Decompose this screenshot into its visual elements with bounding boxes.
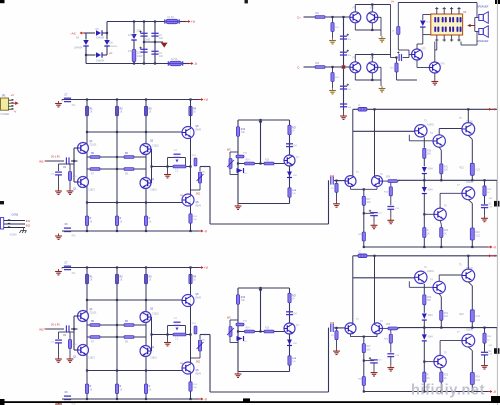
electrolytic capacitor C18 — [340, 52, 347, 55]
junction — [373, 108, 375, 110]
svg-text:10K: 10K — [241, 132, 246, 134]
svg-text:R23: R23 — [444, 375, 449, 377]
wire +V rail channel 1 — [62, 99, 199, 101]
junction — [86, 266, 88, 268]
wire driver bottom 1 — [238, 203, 290, 205]
junction — [86, 98, 88, 100]
wire — [336, 328, 338, 331]
wire T3 collector column stage 2 — [423, 284, 425, 295]
electrolytic capacitor C11 feedback channel 1 — [174, 154, 181, 157]
resistor R30b stage 2 — [423, 372, 426, 382]
wire — [435, 49, 437, 51]
wire diode link bottom — [423, 34, 431, 36]
resistor R23 stage 2 — [440, 372, 443, 382]
wire output rail stage 1 — [398, 179, 497, 181]
transistor Q5 VAS top channel 2 — [182, 295, 194, 307]
wire — [229, 320, 231, 343]
junction — [189, 230, 191, 232]
resistor R28 stage 2 — [362, 377, 365, 386]
junction — [423, 246, 425, 248]
wire — [199, 351, 201, 358]
junction — [259, 330, 261, 332]
svg-text:1K: 1K — [149, 280, 152, 282]
trimmer arrow driver 1 — [227, 160, 234, 167]
right edge line — [496, 0, 498, 405]
capacitor C13 input stage 1 — [331, 177, 333, 185]
svg-text:R13: R13 — [241, 297, 246, 299]
wire diff2 base column channel 1 — [151, 149, 153, 183]
svg-text:0.22: 0.22 — [475, 235, 480, 237]
transistor Q7 driver 1 — [284, 155, 295, 166]
junction — [145, 266, 147, 268]
wire — [417, 43, 423, 45]
ground R32 — [329, 38, 336, 44]
svg-text:1K: 1K — [120, 280, 123, 282]
trimmer W2 driver 2 — [229, 327, 232, 337]
resistor R12 channel 2 — [189, 382, 192, 392]
wire — [336, 181, 338, 184]
wire — [371, 55, 373, 62]
junction — [85, 54, 87, 56]
wire — [434, 73, 436, 79]
wire tail column stage 2 — [363, 337, 365, 344]
wire — [180, 21, 187, 23]
resistor R25 feedback stage 1 — [388, 180, 398, 183]
resistor R35 — [395, 63, 398, 72]
wire — [440, 368, 441, 372]
transistor T5 output NPN stage 2 — [462, 269, 475, 282]
wire — [417, 67, 429, 69]
wire speaker 1 — [475, 17, 479, 19]
ground at C7 channel 2 — [55, 269, 62, 275]
wire — [325, 16, 350, 18]
wire VT1 emitter — [354, 23, 356, 30]
crop mark bottom-center — [243, 398, 250, 403]
wire input jack line — [4, 227, 25, 229]
transistor VT4 — [367, 62, 378, 73]
crop mark top-center — [245, 0, 248, 3]
wire — [438, 129, 440, 135]
junction — [189, 98, 191, 100]
diode D10 driver 2 — [287, 340, 292, 346]
red junction — [342, 65, 346, 69]
wire — [439, 147, 441, 150]
resistor R14 driver 1 — [245, 162, 255, 165]
resistor R9 47K channel 1 — [68, 172, 71, 181]
junction — [440, 327, 442, 329]
wire input jack line — [4, 220, 25, 222]
resistor R28 stage 1 — [362, 232, 365, 241]
svg-text:4148: 4148 — [428, 169, 434, 171]
svg-text:V+: V+ — [391, 0, 395, 4]
svg-text:JP1: JP1 — [2, 94, 7, 97]
capacitor C14 stage 2 — [387, 354, 394, 357]
wire — [439, 193, 441, 208]
transistor T2 input stage 1 — [372, 176, 383, 187]
svg-text:R23: R23 — [444, 230, 449, 232]
feedback cap arrow channel 1 — [176, 160, 179, 163]
wire base column channel 2 — [73, 316, 75, 350]
electrolytic capacitor C2 4700uF — [140, 49, 147, 52]
electrolytic capacitor C8 47uF channel 2 — [64, 396, 71, 399]
resistor R11 1K — [85, 106, 88, 116]
resistor R26 stage 2 — [389, 334, 392, 343]
wire — [355, 54, 390, 56]
wire — [85, 47, 87, 64]
wire route across 1 — [210, 223, 329, 225]
junction — [143, 41, 145, 43]
wire input channel 2 — [47, 328, 65, 330]
resistor R7 100 channel 2 — [90, 336, 100, 339]
wire — [376, 187, 378, 189]
svg-text:A1943: A1943 — [427, 123, 434, 126]
svg-text:C5200: C5200 — [466, 329, 473, 331]
transistor T5 output NPN stage 1 — [462, 123, 475, 136]
wire lower collector row channel 1 — [87, 202, 182, 204]
wire diode link top — [423, 14, 431, 16]
svg-text:C1815: C1815 — [152, 145, 159, 147]
fuse F2 5A — [168, 61, 182, 65]
wire — [390, 357, 392, 366]
svg-text:R24: R24 — [475, 377, 480, 379]
svg-text:B649: B649 — [196, 129, 202, 131]
diode D13 flyback — [420, 21, 426, 28]
wire driver mid row 2 — [238, 331, 290, 333]
wire column A channel 2 — [86, 268, 88, 400]
wire — [71, 328, 78, 330]
wire output rail stage 2 — [398, 327, 497, 329]
wire T3 collector column stage 1 — [423, 137, 425, 148]
wire — [476, 32, 478, 46]
wire — [409, 54, 412, 56]
ground at C8 channel 1 — [55, 234, 62, 240]
ground feedback stage 2 — [387, 365, 394, 371]
svg-text:4148: 4148 — [428, 315, 434, 317]
resistor R29 10 stage 1 — [483, 186, 486, 196]
junction — [440, 179, 442, 181]
wire T2 collector column stage 1 — [374, 109, 376, 176]
wire VT1 collector — [354, 5, 356, 12]
wire cap column 1 — [143, 22, 145, 64]
svg-text:1/2W: 1/2W — [137, 55, 143, 58]
wire feedback shunt stage 2 — [390, 330, 392, 334]
resistor R8 100 channel 1 — [124, 168, 134, 171]
wire — [422, 35, 424, 44]
transistor T1 input stage 1 — [345, 176, 356, 187]
resistor R13 driver 2 — [236, 295, 239, 305]
power +V output stage 1 — [487, 108, 497, 112]
relay contacts — [434, 17, 461, 32]
junction — [86, 230, 88, 232]
net label IN2 arrow — [39, 328, 47, 332]
svg-text:~AC: ~AC — [70, 32, 77, 36]
svg-text:F1 5A: F1 5A — [168, 16, 175, 19]
wire column D channel 2 — [190, 268, 192, 400]
wire AC input — [84, 32, 95, 34]
resistor R21 stage 2 — [440, 310, 443, 320]
wire route up 1 — [328, 180, 330, 224]
junction — [237, 162, 239, 164]
resistor tail channel 2 — [144, 384, 147, 394]
wire — [422, 15, 424, 21]
wire tail cap branch stage 2 — [364, 360, 374, 362]
resistor R16 driver 2 — [236, 323, 244, 326]
wire — [69, 332, 71, 340]
junction — [166, 165, 168, 167]
fuse F1 5A — [165, 19, 179, 23]
wire — [167, 326, 169, 335]
junction — [154, 20, 156, 22]
wire lower collector row channel 2 — [87, 370, 182, 372]
transistor T4 stage 2 — [433, 281, 445, 293]
electrolytic capacitor C15 stage 2 — [370, 360, 378, 363]
diode D9 driver 1 — [237, 168, 244, 173]
wire — [471, 175, 473, 180]
resistor R21 1K — [115, 106, 118, 116]
wire — [439, 341, 441, 356]
svg-text:R13: R13 — [241, 129, 246, 131]
resistor R17 driver 2 — [288, 293, 291, 303]
svg-text:VT5: VT5 — [422, 49, 427, 51]
trimmer W1 channel 1 — [198, 172, 201, 183]
svg-text:1K: 1K — [427, 233, 430, 235]
wire — [133, 62, 135, 64]
junction — [371, 29, 373, 31]
wire emitter row 1 channel 1 — [87, 156, 146, 158]
wire — [398, 327, 401, 330]
transistor Q3 channel 1 — [140, 144, 151, 155]
wire T3 emitter stage 1 — [408, 135, 410, 141]
svg-text:502: 502 — [196, 361, 201, 364]
svg-text:F2 5A: F2 5A — [171, 58, 178, 61]
svg-text:R19: R19 — [330, 323, 335, 325]
power arrow at JP1 — [13, 101, 19, 105]
diode D7 1N4004 — [96, 52, 102, 58]
output terminal stage 2 — [494, 348, 500, 354]
junction — [116, 230, 118, 232]
relay K1 body — [431, 14, 463, 35]
resistor R4 1K channel 2 — [189, 274, 192, 284]
wire T1 collector column stage 2 — [352, 256, 354, 324]
wire — [350, 187, 352, 189]
junction — [483, 327, 485, 329]
svg-text:1K: 1K — [149, 389, 152, 391]
wire bridge bottom — [86, 54, 96, 56]
wire — [58, 164, 60, 171]
wire — [106, 47, 108, 56]
trimmer arrow channel 2 — [197, 342, 204, 349]
wire T5 collector stage 2 — [467, 256, 469, 269]
svg-text:1N4004: 1N4004 — [96, 37, 105, 40]
resistor R6 100 channel 1 — [124, 156, 134, 159]
wire — [355, 79, 381, 81]
svg-text:1K: 1K — [427, 378, 430, 380]
svg-text:+C: +C — [109, 51, 113, 55]
electrolytic capacitor C17 — [340, 36, 347, 39]
wire — [484, 196, 486, 205]
svg-text:R17: R17 — [292, 127, 297, 129]
wire — [373, 363, 375, 370]
wire — [61, 268, 63, 269]
svg-text:0.22: 0.22 — [475, 316, 480, 318]
svg-text:C1815: C1815 — [88, 190, 95, 192]
resistor R27 tail stage 2 — [362, 344, 365, 353]
wire output base top stage 2 — [439, 274, 462, 276]
junction — [335, 327, 337, 329]
wire — [343, 110, 345, 114]
resistor R32 1K — [144, 274, 147, 284]
diode D11 1N4148 stage 2 — [422, 314, 427, 321]
arrow marker driver 2 — [259, 289, 263, 292]
wire T2 collector column stage 2 — [374, 256, 376, 324]
resistor R36 — [397, 27, 400, 35]
electrolytic capacitor C10 channel 2 — [55, 340, 62, 343]
svg-text:VT6: VT6 — [441, 64, 446, 66]
svg-text:A1943: A1943 — [427, 270, 434, 273]
resistor R33 sense — [315, 66, 325, 69]
svg-text:+V: +V — [492, 108, 497, 112]
svg-text:1K: 1K — [444, 233, 447, 235]
power -V output stage 1 — [488, 245, 497, 249]
transistor T3 PNP stage 2 — [415, 271, 427, 283]
junction — [363, 360, 365, 362]
transistor Q2 channel 1 — [78, 177, 89, 188]
junction — [143, 62, 145, 64]
capacitor C13 input stage 2 — [331, 324, 333, 332]
wire — [484, 343, 486, 352]
svg-text:47K: 47K — [73, 344, 77, 346]
junction — [154, 41, 156, 43]
wire — [185, 326, 187, 335]
svg-text:R14: R14 — [246, 160, 251, 162]
junction — [166, 333, 168, 335]
ground input cap channel 2 — [55, 357, 62, 363]
wire — [183, 63, 189, 65]
junction — [335, 180, 337, 182]
wire driver top 2 — [238, 287, 290, 289]
wire — [167, 158, 169, 167]
inductor L2 — [358, 254, 367, 258]
trimmer W1 channel 2 — [198, 340, 201, 351]
wire — [471, 322, 473, 328]
ground input stage 1 — [333, 201, 340, 207]
wire input jack line — [4, 223, 25, 225]
junction — [467, 255, 469, 257]
resistor R14 driver 2 — [245, 330, 255, 333]
capacitor C16 stage 1 — [481, 205, 488, 208]
wire — [167, 335, 169, 341]
power ground arrow — [161, 43, 168, 48]
junction — [471, 246, 473, 248]
junction — [143, 20, 145, 22]
wire — [390, 209, 392, 218]
wire upper collector row channel 1 — [87, 131, 182, 133]
power +V channel 1 — [199, 98, 209, 102]
net label IN1 arrow — [39, 160, 47, 164]
svg-text:1K: 1K — [120, 112, 123, 114]
junction — [483, 179, 485, 181]
relay pins — [435, 7, 460, 42]
wire tail junction stage 2 — [351, 336, 378, 338]
junction — [423, 179, 425, 181]
svg-text:1K: 1K — [90, 112, 93, 114]
ground feedback stage 1 — [387, 218, 394, 224]
ground driver 1 — [235, 204, 242, 210]
junction — [371, 53, 373, 55]
junction — [116, 98, 118, 100]
wire out to route 1 — [200, 166, 210, 168]
resistor tail channel 2 — [115, 384, 118, 394]
junction — [154, 62, 156, 64]
wire — [58, 175, 60, 189]
wire +V rail channel 2 — [62, 267, 199, 269]
wire VT4 collector — [380, 67, 382, 86]
power +V — [186, 20, 196, 24]
resistor R34 — [331, 73, 334, 82]
resistor R30b stage 1 — [423, 228, 426, 238]
resistor R16 driver 1 — [236, 155, 244, 158]
svg-text:47K: 47K — [335, 27, 339, 29]
resistor R10 2.2 channel 2 — [173, 333, 186, 336]
ground driver 2 — [235, 372, 242, 378]
wire — [423, 180, 425, 187]
wire — [71, 160, 78, 162]
wire T6 emitter column stage 1 — [440, 224, 442, 247]
wire emitter row 2 channel 2 — [87, 336, 146, 338]
wire — [371, 5, 373, 12]
connector CON3 audio input — [1, 218, 4, 230]
wire speaker link — [474, 18, 476, 32]
junction — [73, 160, 75, 162]
crop mark top-right — [495, 0, 500, 4]
diode D6 1N4004 — [83, 40, 89, 46]
trimmer W2 driver 1 — [229, 159, 232, 169]
wire relay +V — [397, 3, 399, 27]
wire — [408, 55, 410, 58]
wire trim loop top driver 2 — [230, 319, 238, 321]
transistor Q4 channel 2 — [140, 346, 151, 357]
wire — [230, 174, 238, 176]
connector JP1 power header — [1, 98, 9, 110]
resistor R12 1K — [85, 274, 88, 284]
wire PSU top rail — [107, 21, 165, 23]
wire — [58, 343, 60, 357]
wire — [468, 347, 472, 351]
svg-text:R22: R22 — [460, 167, 465, 169]
resistor R7 100 channel 1 — [90, 168, 100, 171]
wire — [390, 343, 392, 353]
transistor Q6 VAS bottom channel 1 — [182, 194, 194, 206]
wire — [167, 167, 169, 173]
ground input stage 2 — [333, 349, 340, 355]
wire T7 emitter column stage 2 — [471, 351, 473, 392]
resistor R8 100 channel 2 — [124, 336, 134, 339]
wire T6 emitter column stage 2 — [440, 372, 442, 392]
svg-text:1N4004: 1N4004 — [74, 47, 83, 50]
resistor R22 0.22 stage 1 — [470, 163, 474, 175]
svg-text:1K: 1K — [292, 299, 295, 301]
wire — [484, 208, 486, 216]
resistor R18 driver 1 — [288, 188, 291, 198]
wire — [397, 35, 399, 51]
wire T4 emitter column stage 2 — [440, 297, 442, 310]
svg-text:C+: C+ — [297, 16, 301, 20]
wire — [440, 221, 441, 225]
junction — [189, 333, 191, 335]
wire T6 base stage 1 — [424, 213, 434, 215]
wire — [423, 328, 425, 335]
wire base column channel 1 — [73, 148, 75, 182]
